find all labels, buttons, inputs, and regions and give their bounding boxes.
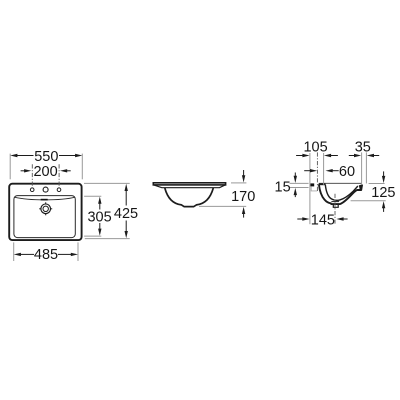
faucet hole right [57, 188, 61, 192]
svg-text:550: 550 [34, 149, 58, 165]
svg-text:145: 145 [311, 212, 335, 228]
inner basin outline [14, 196, 75, 238]
washbasin plan view: outer rim [9, 184, 81, 240]
dim 125 arrows [382, 176, 385, 183]
side view rim top segment [319, 183, 326, 185]
dim 550 extension lines [9, 154, 11, 180]
dim 105 arrows [302, 154, 309, 157]
drain outer circle [41, 204, 51, 214]
drain tick marks [45, 202, 47, 204]
side view rim beak tip [359, 184, 363, 190]
faucet hole center [43, 187, 48, 192]
side view top background edge [319, 182, 362, 184]
dim 105 extension lines [309, 153, 311, 224]
front view rim bar [153, 183, 225, 185]
svg-text:125: 125 [371, 185, 395, 201]
side view hidden fixing outline [311, 186, 317, 191]
side view exterior profile [319, 184, 362, 204]
side view interior bowl curve [325, 185, 358, 201]
overflow slot [41, 199, 48, 201]
drain inner circle [43, 206, 48, 211]
faucet hole left [30, 188, 34, 192]
dim 425 line and arrows [125, 191, 127, 206]
dim 35 arrows [354, 154, 361, 157]
side view wall lip [310, 183, 314, 186]
dim 485 line and arrows [21, 253, 35, 255]
svg-text:105: 105 [303, 139, 327, 155]
side view drain flange line [331, 201, 339, 203]
basin back-wall curve [14, 197, 75, 200]
front view rim underside [154, 185, 226, 188]
svg-text:60: 60 [339, 164, 355, 180]
dim 125 extension lines [369, 183, 385, 185]
dim 550 line and arrows [17, 155, 34, 157]
dim 145 arrows [302, 217, 309, 220]
svg-text:200: 200 [33, 164, 57, 180]
svg-text:485: 485 [34, 247, 58, 263]
svg-text:305: 305 [87, 210, 111, 226]
faucet centerline [316, 152, 318, 191]
drain centerline [334, 194, 336, 224]
front view bowl and drain stub [165, 188, 214, 207]
dim 15 arrows [294, 176, 297, 183]
dim 170 arrows [242, 175, 245, 182]
dim 170 extension lines [231, 182, 246, 184]
svg-text:15: 15 [275, 179, 291, 195]
dim 305 extension lines [84, 195, 101, 197]
dim 305 line and arrows [99, 203, 101, 210]
side view drain stub [333, 204, 338, 207]
dim 35 extension lines [361, 152, 363, 183]
dim 425 extension lines [84, 182, 130, 184]
dim 60 arrows [310, 169, 317, 172]
svg-text:170: 170 [231, 189, 255, 205]
svg-text:35: 35 [355, 139, 371, 155]
dim 485 extension lines [13, 242, 15, 261]
dim 200 centerlines [31, 164, 33, 187]
dim 15 extension lines [290, 182, 309, 184]
dim 200 arrows [24, 169, 31, 172]
svg-text:425: 425 [114, 206, 138, 222]
